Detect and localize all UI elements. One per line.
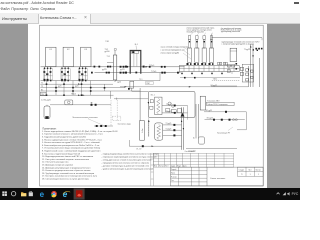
cortana search circle [11, 192, 15, 196]
burner unit under K2 [61, 67, 70, 82]
window close dash [294, 2, 300, 4]
svg-text:Н.контр: Н.контр [171, 176, 177, 178]
leader lines left labels [183, 47, 191, 59]
svg-text:Согласовано: Согласовано [185, 151, 195, 153]
wire y98.8 into box [114, 98, 148, 100]
svg-text:В1 ду25: В1 ду25 [206, 110, 212, 112]
svg-text:Кол.уч: Кол.уч [159, 165, 164, 167]
svg-text:Т4 ду25: Т4 ду25 [166, 128, 172, 130]
svg-text:Листов: Листов [255, 170, 260, 172]
label block cylinders left [187, 26, 216, 33]
svg-text:13. Арматура запорная шаровая: 13. Арматура запорная шаровая [42, 164, 73, 167]
svg-text:В1: В1 [41, 89, 43, 91]
notes left column [42, 130, 118, 181]
file explorer folder [21, 192, 26, 196]
svg-text:Схема тепловая: Схема тепловая [210, 178, 225, 180]
svg-text:Бак запаса воды: Бак запаса воды [118, 124, 132, 126]
wire network exit y37.7 [212, 34, 262, 49]
wire dashed below manifold [212, 80, 240, 82]
stage-list-sheets table [238, 167, 264, 176]
svg-text:В-1: В-1 [135, 44, 138, 46]
wire drop elbow right [237, 112, 246, 130]
document area [0, 24, 300, 188]
tray speaker [287, 192, 289, 196]
svg-text:V=1м³: V=1м³ [141, 128, 144, 133]
svg-text:Т2: Т2 [41, 86, 43, 88]
valves bottom-left run [94, 125, 113, 127]
svg-text:- предохранительные клапаны ко: - предохранительные клапаны котлов со сб… [102, 162, 150, 164]
right pump cluster box [236, 63, 254, 82]
svg-text:Т2.1: Т2.1 [139, 79, 142, 81]
label kanalizacia [217, 127, 233, 135]
svg-text:- отвод дренажных стоков в кан: - отвод дренажных стоков в канализацию к… [102, 159, 152, 162]
start button windows logo [2, 191, 7, 196]
label expansion tank [222, 41, 260, 51]
boiler drop pipes to headers [46, 74, 83, 97]
svg-text:трубопровод котельной: трубопровод котельной [221, 30, 240, 33]
riser pair main [181, 107, 185, 150]
pump P rounded box [65, 100, 73, 105]
boiler K1 [46, 47, 56, 66]
junction verticals right of headers [104, 84, 111, 99]
wire bottom y146 [129, 140, 181, 150]
svg-text:Гейзер-ТМ 0,6 непрерывн.: Гейзер-ТМ 0,6 непрерывн. [207, 103, 228, 106]
vertical pipe x140 [139, 88, 141, 121]
valves flanking flue legs [125, 66, 145, 74]
svg-text:В.1.1: В.1.1 [151, 94, 155, 96]
svg-text:K2: K2 [67, 49, 70, 51]
tray language РУС [292, 192, 299, 196]
svg-text:15. Клапаны предохранительные: 15. Клапаны предохранительные сбросные к… [42, 170, 90, 172]
svg-text:Т.Б2.1: Т.Б2.1 [213, 79, 218, 81]
svg-text:ду125: ду125 [120, 69, 125, 71]
distribution manifold [179, 63, 239, 72]
wire Na line y104.8 [47, 105, 111, 106]
svg-text:с частотным приводом (2 шт): с частотным приводом (2 шт) [161, 50, 185, 52]
svg-text:Бс: Бс [193, 138, 195, 140]
svg-text:Пров.: Пров. [171, 173, 176, 175]
wires exchanger outlets [162, 104, 188, 120]
wire header y95 [40, 94, 113, 96]
svg-text:ду25: ду25 [58, 86, 62, 88]
gas drop lines to headers [55, 81, 91, 96]
label Na unit [73, 117, 105, 126]
tab bar [0, 13, 300, 24]
notes right column [102, 153, 159, 171]
label fuel group [118, 124, 132, 126]
svg-text:У1, У2: У1, У2 [136, 148, 141, 150]
valve pair on T1 near separator [120, 66, 129, 68]
svg-text:9. Бак запаса подпиточной воды: 9. Бак запаса подпиточной воды V=1 м3 [42, 152, 81, 155]
water treatment unit box [148, 91, 195, 117]
label block cylinders right [221, 27, 242, 33]
taskbar [0, 188, 300, 200]
arrow pipe x148.8 [148, 120, 150, 137]
notes heading [43, 128, 57, 130]
svg-text:17. Контроль загазованности по: 17. Контроль загазованности помещения ко… [42, 176, 98, 178]
storage tank V1 [140, 121, 145, 141]
svg-text:14. Арматура регулирующая и пр: 14. Арматура регулирующая и предохраните… [42, 166, 90, 169]
svg-text:В1 ду32: В1 ду32 [211, 85, 217, 87]
wire y86 right [211, 85, 237, 87]
svg-text:с запорной арматурой ду125 на: с запорной арматурой ду125 на выходе [222, 43, 254, 46]
label box XBO [207, 101, 235, 106]
svg-text:11. Узел учёта тепловой энерги: 11. Узел учёта тепловой энергии с вычисл… [42, 158, 90, 161]
svg-text:- датчики температуры и давлен: - датчики температуры и давления теплово… [102, 164, 149, 167]
acrobat reader icon [76, 190, 83, 197]
svg-text:8. Подпиточный насос с автомат: 8. Подпиточный насос с автоматикой подде… [42, 150, 100, 153]
network exit valves cluster [253, 48, 263, 51]
svg-text:Разраб: Разраб [171, 169, 176, 171]
svg-text:7. Установка умягчения воды не: 7. Установка умягчения воды непрерывного… [42, 147, 101, 150]
svg-text:4. Насосы циркуляционные сетев: 4. Насосы циркуляционные сетевые Grundfo… [42, 138, 102, 141]
valves left of separator [91, 66, 111, 74]
svg-text:Т4 ду32: Т4 ду32 [166, 111, 172, 113]
flue stack U-frame [130, 44, 141, 74]
svg-text:K1: K1 [50, 49, 53, 51]
wire y111.8 right [204, 110, 246, 113]
manifold drains [180, 72, 240, 79]
wire gas manifold [41, 80, 114, 82]
wire return header T2 [95, 72, 181, 74]
svg-text:ГВС: ГВС [146, 83, 150, 85]
svg-text:6. Баки мембранные расширитель: 6. Баки мембранные расширительные Reflex… [42, 145, 100, 147]
internet explorer e [63, 190, 70, 199]
dashed room boundary [111, 100, 121, 126]
svg-text:Т1.1: Т1.1 [107, 56, 111, 58]
left vertical stamp strip [151, 153, 154, 186]
label du125 [102, 69, 125, 71]
svg-text:Т.В1: Т.В1 [105, 41, 109, 43]
svg-text:Т3 ду25: Т3 ду25 [166, 123, 172, 125]
svg-text:e: e [40, 190, 45, 199]
riser pair second [196, 104, 199, 138]
wire y119.7 right [205, 118, 245, 121]
wire supply header T1 [41, 66, 185, 68]
svg-text:10. Водоподогреватель ёмкостны: 10. Водоподогреватель ёмкостный ГВС со з… [42, 155, 94, 158]
pump cylinder N4 [209, 36, 213, 63]
svg-text:Т1 ду125: Т1 ду125 [244, 49, 251, 51]
svg-text:Grundfos TP 65-120/2: Grundfos TP 65-120/2 [187, 31, 204, 34]
svg-text:Na-катионитовая установка: Na-катионитовая установка [73, 117, 98, 119]
menu bar [1, 7, 55, 11]
air separator vessel [128, 81, 148, 91]
svg-text:Лист: Лист [165, 165, 169, 167]
label box y81 [146, 81, 153, 85]
boiler outlet valves [44, 68, 86, 69]
svg-text:Т3 ду32: Т3 ду32 [166, 104, 172, 106]
svg-text:П: П [241, 174, 243, 176]
burner unit under K3 [78, 67, 87, 82]
svg-text:12. Узел учёта расхода газа: 12. Узел учёта расхода газа [42, 162, 69, 164]
valve pair on T2 near separator [120, 72, 125, 74]
title bar [0, 0, 300, 13]
document tab [38, 14, 91, 24]
pump cylinder N2 [195, 36, 199, 63]
tall tank right of box [200, 96, 205, 110]
svg-text:1,3 Na ду25: 1,3 Na ду25 [41, 100, 51, 102]
svg-text:1: 1 [250, 174, 251, 176]
svg-text:Лист: Лист [248, 170, 252, 172]
title block [171, 167, 264, 186]
svg-text:ду200: ду200 [105, 51, 110, 53]
small boxes left of cluster [227, 64, 235, 72]
svg-text:ду125: ду125 [102, 69, 107, 71]
tray network [283, 192, 286, 195]
label T.95x5 mid [149, 65, 156, 73]
svg-text:насос сетевой контура отоплени: насос сетевой контура отопления [161, 46, 188, 49]
svg-text:Изм: Изм [154, 165, 157, 167]
svg-text:1. Котлы водогрейные газовые К: 1. Котлы водогрейные газовые КВ-ГМ-1,1-9… [42, 130, 118, 133]
title block drawing name [210, 178, 225, 180]
svg-text:РУС: РУС [292, 192, 299, 196]
svg-text:Стадия: Стадия [239, 170, 245, 172]
svg-text:ду25: ду25 [75, 86, 79, 88]
wire L-drop to y80.5 [115, 73, 160, 81]
svg-text:Т.95х5: Т.95х5 [149, 65, 154, 67]
pump cylinder N3 [202, 36, 206, 63]
manifold right end valves [240, 66, 249, 87]
svg-text:ду20: ду20 [117, 81, 121, 83]
label below manifold [213, 79, 218, 81]
svg-text:Т.70х5: Т.70х5 [151, 71, 156, 73]
heat exchanger in box [155, 97, 162, 114]
svg-text:Т95х5: Т95х5 [71, 94, 76, 96]
svg-text:2. Горелки газовые блочные с а: 2. Горелки газовые блочные с автоматикой… [42, 133, 103, 136]
wire bottom y148.4 [186, 148, 237, 152]
label 1.3Na [41, 100, 51, 102]
svg-text:1: 1 [258, 174, 259, 176]
burner unit under K1 [43, 67, 52, 82]
tray chevron [277, 193, 280, 195]
label above revision table [185, 151, 195, 153]
wire top feed y86.8 [120, 85, 248, 87]
svg-text:K3: K3 [85, 49, 88, 51]
dashed boundary end [148, 118, 150, 137]
wire header y91 [40, 89, 140, 91]
hydraulic separator column [105, 41, 122, 84]
drawing frame border [40, 25, 264, 186]
svg-text:18. Сигнализация вынесена на п: 18. Сигнализация вынесена на пульт диспе… [42, 179, 90, 181]
svg-text:клапан обратный ду80: клапан обратный ду80 [161, 52, 179, 55]
wire header y87.5 [40, 86, 125, 88]
valves on headers mid [149, 66, 179, 74]
svg-text:- уровни автоматизации и диспе: - уровни автоматизации и диспетчеризации… [102, 167, 154, 170]
boiler K2 [63, 47, 73, 66]
svg-text:Канализация РУ: Канализация РУ [217, 133, 231, 135]
microsoft store bag [29, 191, 33, 196]
revision table [153, 153, 233, 167]
edge browser e [40, 190, 45, 199]
leader lines cylinders to labels [190, 33, 213, 36]
boiler K3 [81, 47, 91, 66]
svg-text:В1 ду25: В1 ду25 [207, 118, 213, 120]
svg-text:5. Насосы котловых контуров UP: 5. Насосы котловых контуров UPS 40-60 F … [42, 141, 100, 144]
valve with actuator on Na line [91, 102, 97, 105]
pump cylinder N1 [187, 36, 191, 63]
page [28, 24, 267, 188]
svg-text:3. Гидравлический разделитель: 3. Гидравлический разделитель ду200 L=12… [42, 136, 87, 139]
svg-text:Т1: Т1 [41, 83, 43, 85]
schematic overlay svg goes here [0, 0, 300, 200]
gas inlet box [40, 92, 46, 96]
wire header y84 [40, 83, 113, 85]
acrobat active highlight [74, 188, 85, 199]
twin tee valves on manifold [218, 62, 227, 65]
expansion tank [230, 48, 237, 61]
left label list near cylinders [161, 46, 188, 55]
small drain vessel [193, 137, 204, 144]
svg-text:- перемычки трубопроводов котл: - перемычки трубопроводов котлового конт… [102, 157, 157, 159]
svg-text:- подвод водопровода хозяйстве: - подвод водопровода хозяйственно-питьев… [102, 153, 159, 156]
pumps in box [168, 102, 174, 107]
Na filter vessel [44, 106, 50, 119]
wires heater to riser [163, 123, 182, 136]
coil water heater [155, 123, 163, 140]
chrome browser [51, 191, 57, 197]
riser pipes right [250, 44, 260, 87]
small units in box [150, 100, 181, 113]
svg-text:16. Трубопроводы тепловой сети: 16. Трубопроводы тепловой сети в теплово… [42, 172, 94, 175]
